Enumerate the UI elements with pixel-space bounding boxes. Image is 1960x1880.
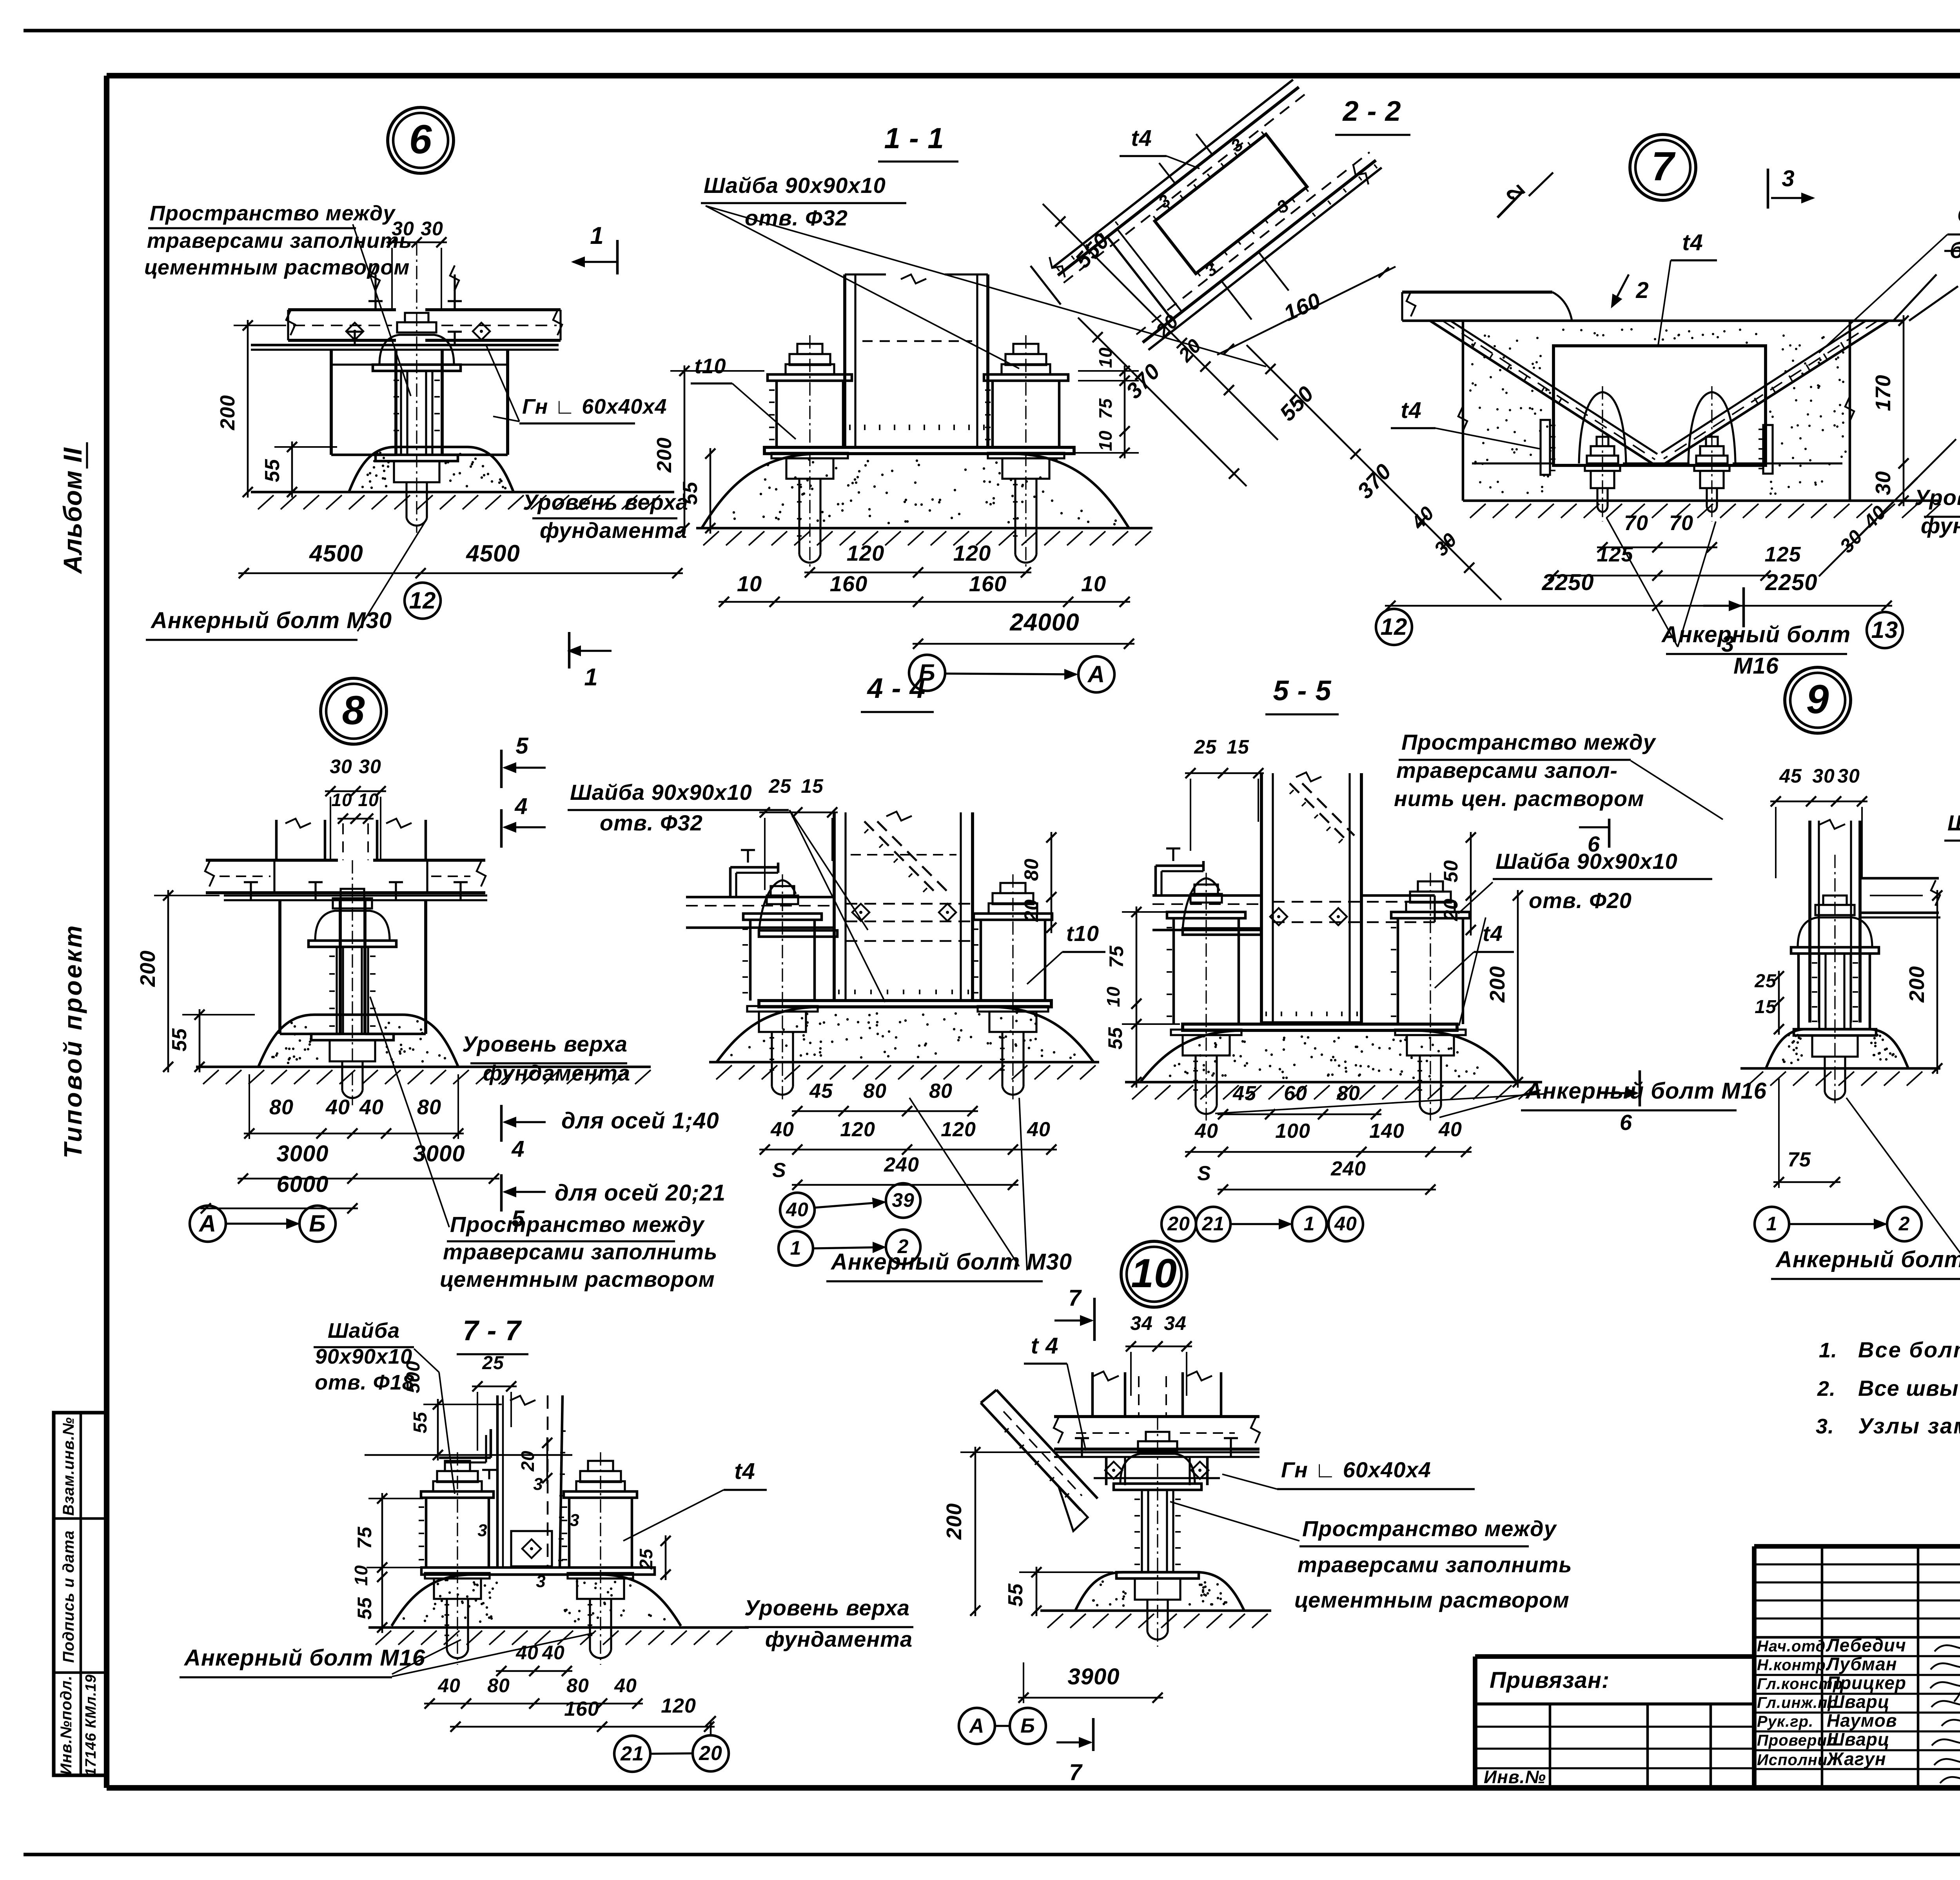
title block name row Гл.инж.пр Шварц xyxy=(1757,1691,1890,1712)
title block outer box xyxy=(1475,1546,1960,1788)
svg-text:100: 100 xyxy=(1275,1120,1310,1143)
svg-text:90х90х10: 90х90х10 xyxy=(315,1345,412,1368)
node 6 dim 30 30 top xyxy=(387,218,447,310)
svg-text:2: 2 xyxy=(1635,278,1649,303)
section 1-1 right dim chain 10 75 10 xyxy=(1074,347,1139,458)
section 5-5 left anchor bolt with hat xyxy=(1167,873,1261,1121)
node 7 concrete dots xyxy=(1469,328,1847,495)
svg-text:М16: М16 xyxy=(1733,653,1779,679)
node 7 right brace upper part xyxy=(1893,251,1960,321)
section 4-4 travers dashed box xyxy=(846,904,973,941)
section 7-7 dim 40 80 80 40 xyxy=(424,1675,643,1709)
section 5-5 travers dashed box xyxy=(1273,895,1435,922)
node 9 side plates xyxy=(1798,954,1870,1029)
section 1-1 label Шайба 90х90х10 отв.Ф32 xyxy=(701,173,1266,369)
node 7 base centerline xyxy=(1472,462,1842,464)
section 5-5 dim S 240 xyxy=(1197,1157,1436,1195)
section 5-5 note Пространство между траверсами заполнить цен. раствором xyxy=(1394,730,1723,819)
svg-text:75: 75 xyxy=(1095,398,1116,419)
svg-text:Наумов: Наумов xyxy=(1827,1710,1897,1731)
section 5-5 right anchor bolt xyxy=(1391,873,1470,1121)
section 4-4 dim 40 120 120 40 xyxy=(759,1118,1057,1155)
section 4-4 dim S 240 xyxy=(772,1153,1018,1190)
svg-text:t4: t4 xyxy=(1131,125,1152,151)
svg-text:Инв.№подл.: Инв.№подл. xyxy=(58,1675,75,1775)
node 8 travers plate xyxy=(224,895,487,900)
svg-text:40: 40 xyxy=(770,1118,794,1141)
title block name row Исполнил Жагун xyxy=(1757,1749,1886,1769)
svg-text:80: 80 xyxy=(417,1095,441,1119)
svg-text:Инв.№: Инв.№ xyxy=(1484,1767,1546,1787)
svg-text:t10: t10 xyxy=(1066,921,1099,946)
section 5-5 label Шайба 90х90х10 отв.Ф20 xyxy=(1458,849,1712,1026)
svg-text:Обетонировка: Обетонировка xyxy=(1957,202,1960,228)
section 4-4 travers beam xyxy=(686,897,834,928)
svg-text:Уровень верха: Уровень верха xyxy=(744,1595,910,1620)
svg-text:30: 30 xyxy=(1837,765,1860,787)
svg-text:Все швы К: Все швы К xyxy=(1858,1376,1960,1400)
node 8 foundation mound xyxy=(258,1015,458,1067)
section 4-4 label Анкерный болт М30 xyxy=(826,1098,1072,1281)
node 7 label t4 left xyxy=(1391,398,1541,449)
node 6 right beam xyxy=(425,301,562,340)
node 6 travers plate xyxy=(251,345,559,350)
section 7-7 dim 25 top xyxy=(472,1353,517,1451)
svg-text:Анкерный болт М30: Анкерный болт М30 xyxy=(1775,1247,1960,1272)
svg-text:Шайба: Шайба xyxy=(328,1319,400,1342)
svg-text:А: А xyxy=(198,1210,216,1237)
node 8 label для осей 1;40 xyxy=(561,1108,719,1133)
node 7 axis circle 13 xyxy=(1867,612,1903,648)
section 5-5 travers diamonds xyxy=(1270,908,1347,925)
section 4-4 right dim 20 80 xyxy=(1020,832,1056,933)
node 7 dim chain left 550 370 40 30 xyxy=(1247,345,1501,600)
node 7 side plate t4 left xyxy=(1541,420,1555,475)
node 8 section mark 4 xyxy=(501,794,546,848)
svg-text:170: 170 xyxy=(1871,374,1895,411)
node 7 section mark 2 top xyxy=(1497,173,1553,218)
outer border top line xyxy=(24,29,1960,32)
svg-text:нить цен. раствором: нить цен. раствором xyxy=(1394,786,1644,811)
node 8 left post xyxy=(276,819,325,860)
svg-text:45: 45 xyxy=(1232,1082,1256,1105)
node 8 label для осей 20;21 xyxy=(555,1180,726,1206)
node 8 section mark 4 bottom xyxy=(501,1105,546,1162)
node 7 dim 2250 2250 xyxy=(1385,570,1892,611)
svg-text:15: 15 xyxy=(1755,997,1777,1017)
svg-text:75: 75 xyxy=(354,1526,376,1549)
node 6 bolt T symbols on plate xyxy=(347,332,462,345)
section 6-6 label Шайба 90х90х10 отв.Ф32 xyxy=(1944,810,1960,1019)
svg-text:Анкерный болт: Анкерный болт xyxy=(1661,622,1851,647)
section 4-4 foundation mound xyxy=(717,1007,1094,1062)
svg-text:20: 20 xyxy=(1440,898,1462,921)
svg-text:цементным раствором: цементным раствором xyxy=(1294,1588,1570,1612)
node 6 note text: Пространство между траверсами заполнить цементным раствором xyxy=(144,202,412,396)
svg-text:фундамента: фундамента xyxy=(1921,513,1960,538)
section 5-5 dim 40 100 140 40 xyxy=(1185,1118,1472,1157)
section 7-7 dim 160 120 xyxy=(450,1695,715,1732)
svg-text:Пространство между: Пространство между xyxy=(1302,1516,1557,1541)
title block text Привязан xyxy=(1490,1667,1610,1693)
section 4-4 dim 25 15 xyxy=(759,775,838,890)
svg-text:70: 70 xyxy=(1624,511,1648,535)
node 9 column xyxy=(1810,820,1860,1023)
section 4-4 base plate xyxy=(759,1001,1051,1007)
svg-text:1: 1 xyxy=(590,222,604,249)
node 6 beam dashed centerline xyxy=(293,325,557,326)
margin label Типовой проект xyxy=(59,923,87,1158)
node 8 bolt symbols on beam xyxy=(244,882,468,900)
svg-text:4500: 4500 xyxy=(466,540,520,567)
node 7 label Уровень верха фундамента right xyxy=(1915,485,1960,538)
svg-text:6000: 6000 xyxy=(276,1172,328,1197)
node 8 ground line xyxy=(196,1067,651,1084)
node 6 section mark 1 bottom xyxy=(569,632,612,691)
node 9 central anchor bolt M30 xyxy=(1791,855,1879,1107)
node 7 left anchor bolt M16 xyxy=(1579,386,1626,521)
svg-text:Лубман: Лубман xyxy=(1826,1654,1897,1674)
svg-text:25: 25 xyxy=(482,1353,504,1373)
svg-text:8: 8 xyxy=(342,688,365,733)
node 7 ground line xyxy=(1463,501,1940,518)
section 4-4 left anchor bolt with hat xyxy=(742,874,837,1101)
title block name row Нач.отд Лебедич xyxy=(1757,1635,1906,1655)
svg-text:10: 10 xyxy=(737,571,762,596)
node 9 dim 45 30 30 xyxy=(1770,765,1867,878)
node 10 bolt symbols on beam xyxy=(1075,1438,1238,1457)
node 9 dim 25 15 left xyxy=(1754,971,1784,1035)
svg-text:12: 12 xyxy=(1381,614,1408,640)
section 1-1 base plate t10 xyxy=(764,447,1074,454)
svg-text:Анкерный болт М16: Анкерный болт М16 xyxy=(183,1645,425,1671)
svg-text:55: 55 xyxy=(410,1411,431,1433)
svg-text:траверсами заполнить: траверсами заполнить xyxy=(147,229,412,252)
node 10 dim 3900 xyxy=(1018,1662,1163,1703)
node 7 dim 125 125 xyxy=(1548,543,1801,581)
svg-text:20: 20 xyxy=(699,1742,722,1765)
node 7 left beam stub xyxy=(1402,291,1572,321)
section 4-4 label t10 xyxy=(1027,921,1105,984)
svg-text:3: 3 xyxy=(570,1511,579,1530)
section 5-5 axis circles 20 21 1 40 xyxy=(1161,1207,1363,1241)
node 8 section mark 5 bottom xyxy=(501,1174,546,1232)
svg-text:40: 40 xyxy=(786,1199,809,1221)
svg-text:24000: 24000 xyxy=(1009,609,1079,636)
svg-text:Уровень верха: Уровень верха xyxy=(462,1032,628,1056)
svg-text:200: 200 xyxy=(1486,966,1509,1003)
svg-text:Шварц: Шварц xyxy=(1827,1691,1890,1712)
svg-text:3: 3 xyxy=(1721,631,1734,657)
node 10 central anchor bolt xyxy=(1114,1417,1201,1647)
node 7 dim chain right 30 40 xyxy=(1819,439,1956,576)
node 8 dim 3000 3000 xyxy=(238,1141,499,1184)
svg-text:А: А xyxy=(1087,661,1105,687)
node 10 ground line xyxy=(1040,1611,1271,1628)
svg-text:25: 25 xyxy=(768,775,791,797)
section 5-5 dim 25 15 xyxy=(1185,736,1264,851)
section 5-5 left dims 75 10 55 xyxy=(1103,906,1180,1088)
node 7 section mark 2 mid xyxy=(1612,274,1649,307)
svg-text:80: 80 xyxy=(269,1095,294,1119)
node 7 section mark 3 top xyxy=(1768,166,1813,209)
node 8 post dashed lines xyxy=(343,823,368,860)
section 7-7 label t4 xyxy=(623,1459,767,1541)
svg-text:200: 200 xyxy=(136,950,160,987)
svg-text:125: 125 xyxy=(1764,543,1801,566)
node 10 section mark 7 bottom xyxy=(1056,1718,1093,1785)
svg-text:4: 4 xyxy=(514,794,528,819)
svg-text:3: 3 xyxy=(477,1521,487,1540)
svg-text:80: 80 xyxy=(929,1080,953,1103)
node 8 beam xyxy=(205,860,486,893)
node 10 dim 55 xyxy=(1004,1567,1113,1616)
svg-text:15: 15 xyxy=(1227,736,1249,758)
svg-text:отв. Ф32: отв. Ф32 xyxy=(745,205,848,230)
svg-text:39: 39 xyxy=(892,1189,915,1211)
svg-text:3900: 3900 xyxy=(1067,1664,1120,1689)
node 10 foundation mound xyxy=(1075,1572,1244,1611)
svg-text:40: 40 xyxy=(437,1675,461,1697)
node 10 beam xyxy=(1054,1417,1260,1449)
title block name row Н.контр Лубман xyxy=(1757,1654,1897,1674)
svg-text:12: 12 xyxy=(409,587,436,614)
section 7-7 label Шайба 90х90х10 отв.Ф18 xyxy=(314,1319,455,1494)
svg-text:15: 15 xyxy=(801,775,824,797)
svg-text:Гн ∟ 60х40х4: Гн ∟ 60х40х4 xyxy=(522,395,667,418)
node 8 dim 6000 xyxy=(200,1172,358,1213)
svg-text:9: 9 xyxy=(1806,677,1829,722)
node 8 marker circle xyxy=(321,678,387,744)
svg-text:1: 1 xyxy=(790,1237,802,1259)
svg-text:40: 40 xyxy=(614,1675,637,1697)
node 9 dim 200 xyxy=(1870,890,1942,1074)
notes line 2 xyxy=(1817,1376,1960,1406)
svg-text:бетон марки 200: бетон марки 200 xyxy=(1950,238,1960,263)
section 5-5 right dim 20 50 xyxy=(1440,832,1476,935)
svg-text:120: 120 xyxy=(661,1695,696,1717)
node 10 note Пространство между траверсами заполнить цементным раствором xyxy=(1170,1502,1572,1612)
node 7 marker circle xyxy=(1630,134,1696,200)
svg-text:S: S xyxy=(1197,1162,1211,1185)
section 7-7 axis circles 21 20 xyxy=(614,1716,729,1772)
title block signature squiggles xyxy=(1930,1629,1960,1783)
svg-text:30: 30 xyxy=(359,756,381,777)
node 6 dim 4500 4500 xyxy=(238,540,683,578)
section 2-2 label t4 xyxy=(1120,125,1200,169)
svg-text:Исполнил: Исполнил xyxy=(1757,1751,1838,1769)
section 4-4 title xyxy=(861,673,934,712)
svg-text:80: 80 xyxy=(863,1080,887,1103)
node 8 central anchor bolt M30 xyxy=(309,860,396,1105)
svg-text:Узлы замаркированы на листах: Узлы замаркированы на листах 12,16. xyxy=(1858,1413,1960,1438)
section 5-5 ground line xyxy=(1125,1082,1542,1099)
svg-text:фундамента: фундамента xyxy=(765,1627,913,1651)
svg-text:40: 40 xyxy=(542,1642,565,1664)
node 10 travers plate xyxy=(1054,1452,1259,1457)
node 6 right side plate xyxy=(442,350,508,455)
section 1-1 dim 24000 xyxy=(913,609,1134,649)
svg-text:Проверил: Проверил xyxy=(1757,1732,1837,1749)
svg-text:отв. Ф32: отв. Ф32 xyxy=(600,810,703,835)
section 4-4 dim 45 80 80 xyxy=(792,1080,978,1116)
svg-text:55: 55 xyxy=(354,1597,376,1620)
svg-text:34: 34 xyxy=(1130,1312,1153,1334)
title block name row Проверил Шварц xyxy=(1757,1729,1890,1749)
title block text Инв.№ xyxy=(1484,1767,1546,1787)
svg-text:отв. Ф18: отв. Ф18 xyxy=(315,1371,414,1394)
svg-text:160: 160 xyxy=(830,571,867,596)
svg-text:4 - 4: 4 - 4 xyxy=(866,673,926,704)
node 6 label Анкерный болт М30 xyxy=(146,521,425,640)
svg-text:1.: 1. xyxy=(1819,1339,1837,1362)
svg-text:t4: t4 xyxy=(734,1459,755,1484)
section 5-5 base plate xyxy=(1183,1024,1457,1030)
title block привязан columns xyxy=(1475,1704,1754,1788)
node 6 left beam xyxy=(286,301,396,340)
svg-text:Гл.инж.пр: Гл.инж.пр xyxy=(1757,1694,1838,1711)
node 7 axis circle 12 xyxy=(1376,609,1412,645)
svg-text:75: 75 xyxy=(1105,945,1127,968)
section 5-5 section mark 6 bottom xyxy=(1599,1070,1640,1135)
svg-text:Уровень верха: Уровень верха xyxy=(523,490,688,514)
node 8 label Уровень верха фундамента xyxy=(462,1032,630,1085)
section 2-2 dim chain 550 20 20 xyxy=(1043,204,1278,440)
section 5-5 travers beam xyxy=(1152,895,1261,930)
svg-text:10: 10 xyxy=(1095,430,1116,451)
svg-text:1: 1 xyxy=(1304,1213,1315,1235)
svg-text:40: 40 xyxy=(1027,1118,1051,1141)
svg-text:25: 25 xyxy=(1754,971,1777,992)
svg-text:5: 5 xyxy=(515,733,528,759)
svg-text:цементным раствором: цементным раствором xyxy=(440,1267,715,1291)
notes line 1 xyxy=(1819,1337,1960,1362)
node 7 anchor plate xyxy=(1553,346,1766,465)
svg-text:7 - 7: 7 - 7 xyxy=(463,1315,522,1346)
svg-text:траверсами заполнить: траверсами заполнить xyxy=(1298,1552,1572,1577)
svg-text:Подпись и дата: Подпись и дата xyxy=(60,1530,77,1663)
svg-text:20: 20 xyxy=(1167,1213,1190,1235)
node 7 top beam line xyxy=(1402,320,1904,322)
svg-text:t4: t4 xyxy=(1682,230,1703,255)
section 5-5 label t4 xyxy=(1435,921,1514,988)
svg-text:120: 120 xyxy=(953,541,991,565)
node 6 section mark 1 top xyxy=(573,222,617,274)
node 10 diagonal brace xyxy=(981,1390,1098,1531)
svg-text:120: 120 xyxy=(847,541,884,565)
node 7 right anchor bolt M16 xyxy=(1688,386,1735,521)
svg-text:Уровень верха: Уровень верха xyxy=(1915,485,1960,510)
svg-text:55: 55 xyxy=(1004,1583,1027,1607)
margin text Инв.№подл. xyxy=(58,1675,75,1775)
svg-text:Нач.отд: Нач.отд xyxy=(1757,1638,1826,1655)
node 7 dim 70 70 xyxy=(1597,511,1717,552)
svg-text:80: 80 xyxy=(1337,1082,1360,1105)
node 6 angle bolt diamonds xyxy=(346,323,490,340)
svg-text:Привязан:: Привязан: xyxy=(1490,1667,1610,1693)
node 9 label Анкерный болт М30 xyxy=(1771,1098,1960,1279)
svg-text:2250: 2250 xyxy=(1541,570,1594,595)
margin label Альбом II xyxy=(58,442,87,574)
svg-text:3: 3 xyxy=(533,1475,543,1494)
section 1-1 column xyxy=(845,274,988,447)
svg-text:А: А xyxy=(969,1715,985,1737)
svg-text:2.: 2. xyxy=(1817,1377,1836,1400)
svg-text:траверсами запол-: траверсами запол- xyxy=(1396,758,1618,783)
svg-text:Альбом II: Альбом II xyxy=(58,447,87,574)
node 6 foundation mound xyxy=(349,447,514,492)
section 1-1 title xyxy=(878,122,958,162)
node 10 axis circles А Б xyxy=(959,1708,1046,1744)
svg-text:55: 55 xyxy=(261,459,284,482)
svg-text:40: 40 xyxy=(1194,1120,1218,1143)
svg-text:40: 40 xyxy=(1334,1213,1357,1235)
svg-text:30: 30 xyxy=(330,756,352,777)
section 4-4 label Шайба 90х90х10 отв.Ф32 (shared with node 8 row) xyxy=(568,780,885,1002)
section 7-7 weld labels 3 xyxy=(477,1475,579,1591)
svg-text:20: 20 xyxy=(1020,899,1042,922)
section 7-7 dim 20 mid xyxy=(517,1437,552,1484)
section 7-7 dim 500 55 left xyxy=(403,1361,502,1460)
node 7 label t4 top xyxy=(1658,230,1717,345)
node 7 side plate t4 right xyxy=(1759,425,1773,474)
node 10 label t 4 xyxy=(1024,1333,1086,1451)
svg-text:45: 45 xyxy=(809,1080,833,1103)
svg-text:240: 240 xyxy=(884,1153,919,1176)
svg-text:Анкерный болт М30: Анкерный болт М30 xyxy=(830,1249,1072,1275)
svg-text:для осей 1;40: для осей 1;40 xyxy=(561,1108,719,1133)
node 6 left side plate xyxy=(331,350,396,455)
node 9 dim 75 xyxy=(1773,1078,1840,1188)
svg-text:55: 55 xyxy=(168,1028,191,1052)
section 2-2 dim 160 xyxy=(1217,267,1396,355)
svg-text:3.: 3. xyxy=(1816,1415,1834,1438)
svg-text:13: 13 xyxy=(1871,617,1898,643)
svg-text:S: S xyxy=(772,1159,786,1182)
section 5-5 title xyxy=(1265,675,1339,714)
svg-text:21: 21 xyxy=(1201,1213,1225,1235)
notes line 3 xyxy=(1816,1413,1960,1438)
svg-text:6: 6 xyxy=(409,117,432,162)
svg-text:Н.контр.: Н.контр. xyxy=(1757,1657,1831,1674)
section 2-2 dim 370 xyxy=(1078,318,1247,486)
svg-text:3: 3 xyxy=(1782,166,1795,191)
node 9 foundation mound xyxy=(1766,1029,1908,1068)
node 10 bracket diamonds xyxy=(1105,1462,1209,1479)
section 1-1 right anchor bolt xyxy=(984,335,1068,569)
node 6 label Уровень верха фундамента xyxy=(523,490,688,543)
svg-text:Прицкер: Прицкер xyxy=(1827,1673,1906,1693)
svg-text:7: 7 xyxy=(1651,144,1676,189)
svg-text:10: 10 xyxy=(331,790,352,810)
node 10 posts xyxy=(1093,1371,1221,1417)
section 4-4 travers diamonds xyxy=(852,904,956,921)
svg-text:2: 2 xyxy=(1898,1213,1910,1235)
section 5-5 section mark 6 top xyxy=(1579,819,1609,856)
section 4-4 axis pair 1 2 xyxy=(779,1230,920,1266)
svg-text:Гн ∟ 60х40х4: Гн ∟ 60х40х4 xyxy=(1281,1457,1431,1482)
svg-text:4500: 4500 xyxy=(309,540,363,567)
svg-text:200: 200 xyxy=(216,395,239,430)
section 7-7 right anchor bolt xyxy=(562,1452,637,1665)
node 10 section mark 7 top xyxy=(1054,1285,1094,1341)
section 1-1 dim 10 160 160 10 xyxy=(719,571,1130,607)
node 10 dim 200 xyxy=(942,1447,1051,1616)
svg-text:3000: 3000 xyxy=(276,1141,328,1166)
section 7-7 label Уровень верха фундамента xyxy=(744,1595,913,1651)
svg-text:отв. Ф20: отв. Ф20 xyxy=(1529,888,1632,913)
svg-text:55: 55 xyxy=(679,481,702,505)
